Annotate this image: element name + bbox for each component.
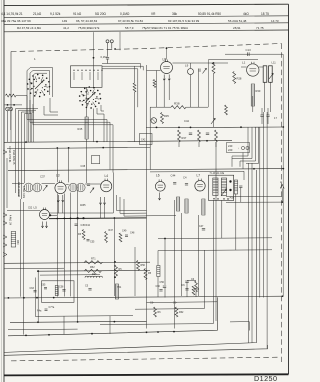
cathode arrow L8 b	[168, 75, 170, 81]
nested corner x213	[100, 238, 213, 324]
wire box1 ground drops	[63, 316, 65, 334]
svg-text:A: A	[280, 180, 282, 184]
wire y329 stub	[8, 328, 78, 331]
cathode arrow L6	[159, 193, 161, 201]
junction dot top of S2 column	[93, 57, 95, 59]
trimmer box mid	[92, 156, 100, 164]
electrolytic cap terminal circle	[151, 118, 157, 124]
resistor R27 right of IFT	[234, 180, 237, 194]
wire right rail x283	[282, 54, 284, 296]
svg-text:R47: R47	[109, 229, 114, 232]
svg-text:7 L10 L11 43a: 7 L10 L11 43a	[210, 173, 225, 175]
wire bundle S2 exit 1	[50, 98, 58, 112]
capacitor C13 coupling	[247, 52, 249, 56]
resistor R39 low vertical	[82, 230, 85, 240]
tuned circuit L4f	[77, 183, 86, 192]
capacitor C44 m	[189, 132, 192, 134]
chassis dashed outline right	[281, 44, 283, 363]
wire x11 to bus141	[10, 120, 12, 142]
IF transformer coil 1	[213, 178, 218, 196]
wire L10 grid	[241, 66, 247, 68]
svg-text:R50: R50	[16, 240, 19, 245]
resistor hatched Ra below row	[177, 197, 180, 211]
wire x23.5 long v	[23, 202, 25, 335]
resistor R64 bb2	[175, 307, 178, 317]
wire caps right leads	[261, 108, 263, 115]
cathode arrow L3b	[62, 195, 64, 202]
wire left bus v2	[19, 110, 37, 196]
capacitor C49 low	[125, 234, 128, 236]
nested corner x204	[135, 250, 204, 309]
output transformer T1 secondary	[269, 66, 273, 83]
junction dot A	[281, 201, 283, 203]
svg-text:C60: C60	[156, 285, 161, 288]
wire center v x64	[63, 194, 65, 297]
header text row 1	[1, 19, 279, 23]
wire row y183 a	[12, 183, 24, 185]
svg-text:4,4 14,76,9k 21: 4,4 14,76,9k 21	[1, 12, 23, 16]
resistor R41 vertical	[215, 130, 218, 142]
IF transformer arrow	[221, 189, 226, 196]
resistor R45 vertical hatched	[85, 117, 88, 139]
wire left bus v3	[22, 112, 35, 199]
wire nest right 2	[232, 127, 252, 158]
wire nest mid L4 a	[117, 195, 147, 211]
svg-text:C38: C38	[81, 165, 86, 168]
wire x20.5 long v	[20, 199, 22, 297]
aerial terminal A2	[110, 40, 113, 43]
speaker feed wires	[226, 170, 244, 172]
svg-text:R71: R71	[91, 257, 96, 260]
resistor R59 low	[195, 281, 198, 292]
svg-text:C44: C44	[184, 119, 189, 123]
resistor R52 horizontal	[84, 269, 101, 272]
wire v x198 down	[198, 215, 200, 296]
wire coilbox nest b	[102, 66, 143, 70]
wire bracket C57 R59	[187, 279, 196, 281]
wire lamp feed	[5, 104, 23, 106]
wire v x158 leads	[157, 251, 159, 266]
resistor R44 low vertical	[119, 233, 122, 242]
wire L8 plate bus	[173, 62, 229, 64]
dark bus y218	[49, 217, 147, 220]
capacitor C60 bb2	[159, 289, 162, 291]
wire S2 column to header	[93, 32, 95, 58]
chassis left vertical wire	[10, 52, 12, 121]
wire nest right 1	[232, 127, 248, 156]
resistor R48 coil horizontal	[85, 276, 102, 277]
wire bundle S1 exit 3	[33, 104, 113, 173]
header text row 0	[1, 12, 269, 16]
resistor R35 vertical	[161, 113, 164, 124]
wire L3 feed v b	[68, 148, 70, 183]
IFT inner blob	[229, 180, 231, 182]
wire row y274.8	[40, 274, 100, 276]
svg-text:R45: R45	[78, 127, 83, 131]
wire IFT drop b	[221, 200, 223, 238]
vertical wire x156 drop	[156, 71, 158, 108]
wire bundle S1 exit 2	[30, 100, 110, 169]
wire left bus v4	[25, 114, 33, 183]
svg-text:C13: C13	[246, 48, 252, 52]
wire row y183 c	[66, 184, 69, 186]
wire right v x252	[251, 163, 253, 343]
tube L5 AF	[40, 210, 50, 220]
svg-text:C63: C63	[30, 287, 35, 290]
chassis dashed outline top	[11, 44, 282, 52]
resistor R28 vertical	[233, 72, 236, 84]
long bus y262	[4, 262, 150, 263]
svg-text:C52: C52	[28, 208, 33, 210]
svg-text:C6⁸: C6⁸	[173, 301, 177, 305]
capacitor C44 f	[173, 182, 176, 184]
resistor R58 hatched	[157, 266, 160, 277]
junction dot x38	[37, 270, 39, 272]
svg-text:R30: R30	[256, 89, 261, 93]
resistor R37 vertical	[178, 130, 181, 142]
trimmer arrow f1	[43, 185, 47, 191]
capacitor C56 low	[163, 285, 166, 287]
wire y196 right	[226, 195, 282, 197]
cathode arrow L4	[100, 197, 102, 205]
capacitor C47 pair b	[266, 114, 269, 116]
svg-text:18 75: 18 75	[261, 12, 269, 16]
wire left margin v	[6, 158, 8, 208]
tuned circuit L1f	[24, 183, 33, 192]
wire lamp leads	[190, 63, 192, 69]
coil taps in box	[73, 72, 75, 80]
wire transformer down a	[264, 82, 266, 112]
wire center v x146.5	[146, 247, 148, 329]
cathode arrow L5b	[46, 222, 48, 228]
svg-text:93 107,81,5 6,3k 34 99: 93 107,81,5 6,3k 34 99	[168, 19, 199, 23]
svg-text:R37: R37	[182, 136, 187, 140]
svg-text:4035: 4035	[80, 204, 86, 207]
wire v x165 down	[164, 239, 166, 286]
nested loop y355-349	[4, 345, 268, 355]
gramo terminal triangle 5	[3, 243, 7, 247]
trimmer arrow S2	[85, 98, 89, 103]
svg-text:L7: L7	[197, 174, 201, 178]
wire right v x263.5	[263, 112, 265, 298]
resistor R38 horizontal	[171, 106, 186, 109]
resistor R47 low vertical	[105, 232, 108, 243]
gramo terminal triangle 2	[3, 213, 7, 217]
svg-text:C77a: C77a	[49, 306, 55, 309]
wire v x181 down	[180, 213, 182, 296]
wire y238 mid	[158, 237, 272, 240]
wire R1 to switch	[16, 95, 27, 97]
wave switch S1 rotary	[48, 81, 50, 83]
pilot lamp L9	[188, 69, 194, 75]
box around L4 right edge	[49, 173, 113, 214]
svg-text:9,1 52k: 9,1 52k	[50, 12, 61, 16]
long bus y321 left	[10, 321, 147, 322]
transformer arrow	[269, 73, 273, 79]
wire R45 leads	[86, 88, 88, 118]
svg-text:41,2: 41,2	[63, 26, 69, 30]
svg-text:56 24Ω 51,48: 56 24Ω 51,48	[228, 19, 247, 23]
wire C50 drop	[240, 188, 242, 203]
svg-text:L3: L3	[56, 174, 60, 178]
capacitor C65 left	[44, 287, 47, 289]
wire bundle S1 exit 1	[27, 96, 107, 143]
wire x208 drop	[208, 60, 210, 108]
resistor hatched Rb below row	[185, 199, 188, 213]
terminal A right	[280, 185, 284, 189]
svg-text:C37: C37	[40, 175, 45, 179]
resistor R33 vertical	[225, 105, 228, 115]
svg-text:R38: R38	[174, 102, 180, 106]
mains selector symbols	[241, 146, 244, 149]
wire nest mid L4 c	[124, 199, 147, 216]
resistor R30 below tube	[251, 84, 254, 106]
wire v x216 down	[215, 142, 217, 321]
wire loop around S1 outer	[27, 68, 53, 113]
svg-text:R62: R62	[179, 311, 184, 314]
wire bundle S2 down a	[97, 108, 104, 142]
capacitor C61 bb2	[185, 288, 188, 290]
long bus y270	[38, 269, 150, 272]
junction dots y297	[7, 297, 9, 299]
cathode arrow L5	[42, 222, 44, 228]
svg-text:71 75: 71 75	[256, 26, 264, 30]
svg-text:38a 39 76a 96 147 69: 38a 39 76a 96 147 69	[1, 19, 31, 23]
wire x120 header drop	[119, 32, 121, 50]
capacitor C43 mid	[202, 228, 205, 230]
capacitor C47 pair a	[260, 114, 263, 116]
header rule 2	[4, 23, 289, 25]
resistor R66 hatched left	[55, 286, 58, 296]
svg-text:C44: C44	[171, 174, 176, 178]
scale lamp LA2	[9, 107, 13, 111]
junction dots y141	[25, 141, 27, 143]
svg-text:5Ω 20Ω: 5Ω 20Ω	[95, 12, 106, 16]
tube L6	[155, 181, 165, 191]
potentiometer arrow vol	[211, 118, 215, 124]
svg-text:C4: C4	[183, 176, 187, 180]
cathode arrow L8 a	[163, 75, 165, 81]
wire y215 stub	[147, 215, 177, 217]
gramo terminal triangle 4	[3, 235, 7, 239]
bottom box 2 top wire	[147, 301, 218, 304]
wire nest right 4	[246, 127, 259, 163]
paper scan edge faint	[0, 0, 2, 382]
IFT bottom dots	[213, 198, 214, 199]
svg-text:75μ57,96kΩ 81 71 91 75 51 38kΩ: 75μ57,96kΩ 81 71 91 75 51 38kΩ	[142, 26, 189, 30]
tube L3	[55, 182, 66, 193]
wire R38 bus	[150, 106, 171, 108]
wire R15 bottom	[213, 74, 215, 128]
wire A horizontal	[226, 201, 282, 203]
wire R5 leads	[134, 66, 136, 83]
svg-text:14 73: 14 73	[271, 19, 279, 23]
nested loop y352-343	[4, 170, 257, 352]
junction dot L5 plate	[49, 214, 51, 216]
cathode arrow L3	[57, 195, 59, 202]
wire right v x267.1	[266, 112, 268, 349]
wire lamp drop	[6, 111, 8, 142]
wire center v x77	[77, 190, 79, 322]
junction dots y169	[282, 168, 284, 170]
wire x146.5 upper	[146, 65, 148, 247]
capacitor C55 low	[87, 239, 90, 241]
tuned circuit L3f	[69, 183, 78, 192]
svg-text:36k: 36k	[172, 12, 177, 16]
wire v x174 down	[173, 200, 175, 329]
resistor R5 vertical right of box	[133, 83, 136, 92]
bottom box 1 big bottom line	[35, 315, 133, 318]
svg-text:R2 47,53 c4 4,8Ω: R2 47,53 c4 4,8Ω	[17, 26, 42, 30]
svg-text:44kM 1MΩ 96: 44kM 1MΩ 96	[17, 182, 20, 198]
svg-text:R56: R56	[141, 264, 146, 267]
svg-text:C58: C58	[59, 286, 64, 289]
wire tube to transformer	[259, 66, 263, 68]
svg-text:D1250: D1250	[254, 374, 277, 382]
wire nest right 3	[240, 127, 256, 161]
oscillator coil box L2	[71, 66, 103, 88]
header rule 3	[4, 30, 289, 32]
bottom box 1 outline	[42, 281, 75, 303]
svg-text:L1: L1	[242, 61, 246, 65]
wire right v x248.5	[248, 163, 250, 343]
mains selector box	[227, 143, 250, 153]
wire below R30	[252, 96, 254, 112]
svg-text:58 7,9: 58 7,9	[125, 26, 134, 30]
long bus y169	[8, 169, 284, 171]
wire bundle S2 exit 2	[44, 106, 58, 115]
wire center v x135	[134, 247, 136, 296]
capacitor C63 left	[34, 290, 37, 292]
wire A drop	[281, 189, 283, 203]
resistor R62 bb2	[192, 286, 195, 295]
svg-text:L8: L8	[163, 58, 167, 62]
wire L5 grid left	[7, 210, 40, 212]
capacitor C50 right of IFT	[239, 185, 242, 187]
IF transformer coil 2	[221, 178, 226, 196]
junction dots ground rail	[25, 335, 27, 337]
junction dot y270	[37, 270, 39, 272]
svg-text:C45 R42: C45 R42	[81, 224, 91, 227]
wire x150.2 vertical	[149, 107, 151, 169]
tube L7	[195, 181, 205, 191]
resistor R56 vertical	[137, 261, 140, 271]
tube L8	[161, 62, 173, 74]
junction dots y321	[37, 321, 39, 323]
junction y238	[164, 238, 166, 240]
svg-text:L6: L6	[156, 174, 160, 178]
svg-text:149: 149	[62, 19, 67, 23]
long bus y141	[4, 141, 232, 143]
svg-text:75,80,38kΩ 97k: 75,80,38kΩ 97k	[78, 26, 100, 30]
main hbus y127 left	[146, 126, 230, 128]
wire mains drop	[242, 153, 244, 169]
resistor R1 antenna series	[6, 94, 17, 97]
svg-text:28,91: 28,91	[233, 26, 241, 30]
svg-text:240: 240	[228, 144, 233, 148]
svg-text:L4: L4	[105, 174, 109, 178]
wire nest drop a	[231, 156, 233, 167]
capacitor C58 bb1	[62, 289, 65, 291]
long bus y148	[7, 147, 150, 148]
border frame top	[4, 4, 289, 5]
trimmer arrow f2	[90, 188, 94, 193]
wire C11 drop	[198, 72, 200, 107]
wire x38 down	[37, 271, 39, 322]
aerial terminal A1	[106, 40, 109, 43]
header rule 1	[4, 16, 289, 18]
wire L3 feed v a	[56, 148, 58, 182]
capacitor C1 antenna	[106, 57, 109, 59]
transformer T11 hatched bar	[115, 284, 118, 299]
border frame bottom	[4, 374, 289, 375]
svg-text:R52: R52	[90, 266, 95, 269]
header text row 2	[17, 26, 264, 30]
junction dot plate bus	[213, 62, 215, 64]
wire nest mid L4 b	[120, 197, 147, 213]
junction dots lamp feed	[7, 104, 9, 106]
wire coilbox nest a	[102, 64, 141, 69]
svg-text:R35: R35	[164, 114, 169, 118]
svg-text:R48: R48	[92, 273, 97, 276]
svg-text:91 kΩ: 91 kΩ	[73, 12, 82, 16]
svg-text:↓: ↓	[238, 147, 239, 150]
svg-text:A5a: A5a	[230, 196, 235, 200]
tube L10 output	[247, 64, 259, 76]
resistor R63 bb2	[154, 307, 157, 317]
svg-text:220: 220	[228, 148, 233, 152]
wire S2 wiper drop	[93, 109, 95, 143]
svg-text:L9: L9	[185, 64, 189, 68]
wire coilbox nest c	[102, 69, 138, 107]
trimmer arrow C11	[203, 68, 207, 73]
output transformer T1 primary	[263, 66, 267, 83]
wire bundle S2 down b	[101, 105, 104, 111]
capacitor C11	[198, 69, 200, 72]
wire top-right feed	[225, 53, 283, 55]
wire left bus v1	[16, 109, 39, 193]
svg-text:T51: T51	[117, 286, 122, 289]
wire to top right corner	[209, 59, 259, 61]
svg-text:C56: C56	[160, 281, 165, 284]
wire row y183 b	[42, 183, 55, 185]
wire transformer down b	[270, 82, 272, 112]
capacitor C40 row	[87, 183, 90, 185]
wire drops below cluster	[178, 142, 180, 147]
svg-text:C55: C55	[90, 241, 95, 244]
resistor R50 boxed	[11, 232, 16, 248]
tube L4	[101, 181, 112, 192]
svg-text:C48: C48	[130, 232, 135, 235]
svg-text:0,1M: 0,1M	[101, 55, 108, 59]
wire right v x259.8	[259, 127, 261, 297]
junction dots R53 leads	[114, 261, 116, 263]
svg-text:4kΩ: 4kΩ	[243, 12, 249, 16]
wire y250 mid	[158, 249, 272, 252]
resistor R53 vertical	[115, 265, 118, 276]
wire switch drop bundle	[26, 112, 28, 142]
IF transformer box	[209, 175, 234, 200]
gramo terminal triangle 6	[3, 253, 7, 257]
junction blob y218	[56, 218, 58, 220]
border frame right	[288, 4, 290, 374]
wire antenna down	[107, 59, 109, 64]
wire loop around S1 third	[33, 73, 47, 108]
chassis dashed outline bottom	[11, 357, 278, 361]
svg-text:97,43 69,5k 7Ω 84: 97,43 69,5k 7Ω 84	[118, 19, 143, 23]
long bus y297	[4, 296, 283, 298]
svg-text:96, 57,44 48,63: 96, 57,44 48,63	[76, 19, 97, 23]
